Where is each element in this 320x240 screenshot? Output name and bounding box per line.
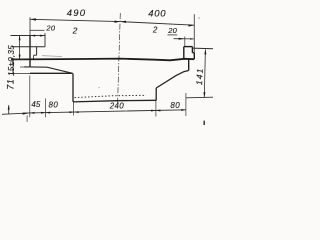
svg-text:20: 20 xyxy=(167,26,177,35)
stray mark bottom right xyxy=(204,121,205,125)
base bottom xyxy=(73,100,156,102)
dimension 15±0.35 (vertical, left) xyxy=(19,36,21,60)
svg-text:240: 240 xyxy=(109,101,124,110)
dimension 71 (vertical, left) xyxy=(12,59,14,73)
left rebate bottom (ext line) xyxy=(12,46,45,48)
left lip top / 20-dim line with arrows xyxy=(11,35,46,37)
stray tick below dim row xyxy=(26,115,28,122)
right 141 dimension: extension lines xyxy=(192,47,213,50)
middle layer line with slope xyxy=(24,67,73,73)
dimension line 20 (right) with arrow xyxy=(174,38,195,40)
svg-text:45: 45 xyxy=(31,100,40,109)
svg-text:2: 2 xyxy=(72,26,78,36)
svg-text:80: 80 xyxy=(170,101,180,110)
bottom arrows xyxy=(30,109,186,114)
base left side xyxy=(72,73,74,102)
right slope xyxy=(156,71,189,89)
bottom ledge line (left) xyxy=(9,72,30,74)
paper background xyxy=(0,0,214,133)
hidden dotted line in base xyxy=(75,95,147,97)
extension line right edge up to 400 dim xyxy=(193,14,195,53)
right lip xyxy=(184,47,195,60)
svg-text:490: 490 xyxy=(67,8,86,19)
outside arrow at left end of bottom chain xyxy=(23,113,30,115)
base left extension down to dim row xyxy=(73,102,75,116)
svg-text:400: 400 xyxy=(148,9,166,20)
svg-text:2: 2 xyxy=(152,25,158,34)
base right side xyxy=(155,88,157,100)
left notch xyxy=(34,47,37,59)
svg-text:15±0,35: 15±0,35 xyxy=(7,45,16,76)
right lower edge xyxy=(188,59,190,70)
left edge of section xyxy=(29,17,31,35)
left vertical dim extension lines xyxy=(11,58,24,60)
svg-text:71: 71 xyxy=(5,79,15,90)
svg-text:141: 141 xyxy=(194,67,205,85)
underline of 20 xyxy=(167,34,177,36)
left lip right side xyxy=(44,33,46,47)
dimension line 2 (left, small) xyxy=(30,29,44,31)
bottom extension lines xyxy=(30,76,186,118)
faint inner line near left xyxy=(42,55,62,58)
bottom dimension line row xyxy=(2,110,186,115)
cropped vertical arrow at lower left xyxy=(8,105,10,114)
dimension line 141 xyxy=(203,49,206,97)
center line (axis) xyxy=(118,13,121,103)
svg-text:80: 80 xyxy=(49,101,59,110)
faint specks xyxy=(98,87,100,89)
dimension line 490 xyxy=(30,18,120,23)
top surface of section xyxy=(11,59,194,61)
extension line from right lip corner up xyxy=(184,37,186,47)
dimension line 400 xyxy=(120,21,194,27)
svg-text:20: 20 xyxy=(45,24,55,33)
